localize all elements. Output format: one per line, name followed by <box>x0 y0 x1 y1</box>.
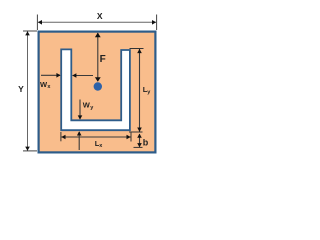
dimension Wx: right arrowhead <box>72 73 76 78</box>
dimension Lx: left tick <box>60 132 62 141</box>
dimension X: line <box>38 21 156 23</box>
dimension Lx: right arrowhead <box>127 135 131 140</box>
label Y <box>18 84 24 94</box>
label X <box>97 11 103 21</box>
dimension X: left extension line <box>36 15 38 31</box>
svg-text:F: F <box>100 54 106 65</box>
dimension Y: top arrowhead <box>25 31 30 35</box>
label Lx <box>95 139 104 149</box>
dimension Wx: right arrow line <box>73 75 93 77</box>
label F <box>100 54 106 65</box>
dimension Wy: up arrowhead <box>77 131 82 135</box>
label Wx <box>40 80 51 90</box>
dimension X: right arrowhead <box>152 20 156 25</box>
dimension b: bottom tick <box>134 146 143 148</box>
dimension Y: bottom arrowhead <box>25 147 30 151</box>
dimension Ly: bottom arrowhead <box>137 128 142 132</box>
dimension b: up arrowhead <box>137 134 142 138</box>
dimension Wx: left arrow line <box>41 74 60 76</box>
dimension Wy: lower arrow line <box>78 132 80 150</box>
U-slot (white slot with blue outline) <box>61 49 130 130</box>
dimension Lx: right tick <box>130 132 132 142</box>
dimension b: down arrowhead <box>137 143 142 147</box>
dimension Lx: line <box>61 136 130 138</box>
label Ly <box>143 85 152 95</box>
patch (orange square with blue border) <box>39 32 156 153</box>
feed point (blue dot) <box>94 82 102 90</box>
svg-text:b: b <box>143 138 149 148</box>
svg-text:Y: Y <box>18 84 24 94</box>
dimension Ly: top arrowhead <box>137 49 142 53</box>
svg-text:X: X <box>97 11 103 21</box>
dimension X: left arrowhead <box>38 20 42 25</box>
dimension Y: line <box>27 31 29 150</box>
dimension F: bottom arrowhead <box>95 77 101 82</box>
dimension b: double arrow line <box>139 134 141 147</box>
dimension Wy: down arrowhead <box>78 115 83 119</box>
dimension Wx: left arrowhead <box>56 73 60 78</box>
dimension Wy: upper arrow line <box>79 100 81 120</box>
dimension Ly: bottom extension line <box>129 131 143 133</box>
dimension Ly: top extension line <box>130 48 144 50</box>
dimension Y: top extension line <box>23 30 37 32</box>
dimension F: top arrowhead <box>95 33 101 38</box>
dimension Ly: line <box>139 49 141 132</box>
dimension Lx: left arrowhead <box>61 135 65 140</box>
dimension F: line <box>97 33 99 81</box>
dimension Y: bottom extension line <box>23 150 37 152</box>
dimension X: right extension line <box>156 15 158 31</box>
label b <box>143 138 149 148</box>
label Wy <box>83 101 94 111</box>
